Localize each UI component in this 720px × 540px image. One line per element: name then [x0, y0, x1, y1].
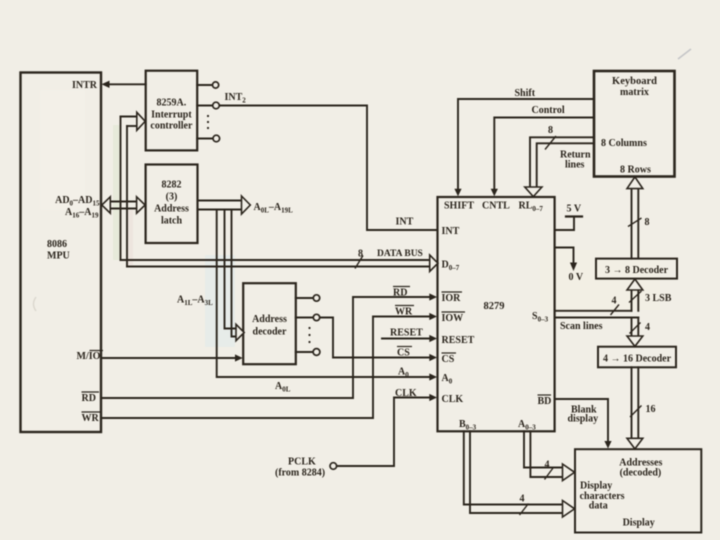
hollow head into 8259A: [137, 112, 145, 130]
svg-text:0 V: 0 V: [569, 272, 584, 283]
3-to-8 decoder box: [596, 259, 677, 279]
svg-text:controller: controller: [150, 121, 193, 132]
svg-text:4: 4: [520, 494, 525, 505]
8259A output stubs: [197, 84, 212, 86]
svg-text:4: 4: [612, 296, 617, 307]
wire VSS to 0V: [555, 248, 574, 264]
arrowhead VSS 0V down: [570, 263, 577, 272]
8282 address latch box: [146, 165, 198, 244]
faint smudge left middle: [34, 297, 37, 311]
wire RD to IOR: [101, 297, 431, 398]
arrowhead CS: [429, 354, 437, 361]
bus MPU-8282 double arrow shaft: [110, 201, 138, 203]
hollow head AD bus left into MPU: [102, 197, 111, 213]
svg-text:INT: INT: [442, 226, 460, 237]
svg-text:8: 8: [358, 249, 363, 260]
open circle terminals: [213, 82, 337, 469]
wire WR to IOW: [101, 317, 431, 419]
8259A interrupt controller box: [146, 71, 198, 151]
svg-text:(from 8284): (from 8284): [275, 468, 325, 479]
svg-text:Interrupt: Interrupt: [151, 110, 192, 121]
bus A1L-A3L to address decoder: [225, 210, 237, 329]
hollow head B0-3 bus into display: [563, 501, 575, 518]
wire BD blank display: [555, 399, 608, 442]
arrowhead M/IO: [235, 354, 243, 361]
keyboard matrix box: [594, 71, 675, 177]
arrowhead A0: [429, 373, 437, 380]
bus B0-3 to display: [464, 431, 563, 504]
svg-text:RD: RD: [82, 393, 96, 404]
slash 8 return lines: [545, 136, 556, 150]
bus 8 pair 3-8 decoder to keyboard: [631, 189, 633, 259]
bus 4 down pair to 4-16 decoder: [631, 318, 633, 337]
bus 16 pair 4-16 decoder to display: [631, 367, 633, 438]
hollow head up into keyboard: [627, 177, 643, 189]
hollow head A0-3 bus into display: [563, 464, 575, 481]
svg-text:DATA BUS: DATA BUS: [377, 249, 423, 259]
wire AD bus vertical channel right line: [126, 126, 128, 267]
decoder output stubs: [296, 297, 314, 299]
svg-text:8 Rows: 8 Rows: [620, 165, 651, 176]
svg-text:latch: latch: [161, 216, 183, 227]
5V T-bar: [566, 215, 582, 217]
hollow head up into 3-8 decoder: [627, 279, 643, 290]
arrowhead SHIFT down: [454, 189, 461, 197]
slash 8 data bus: [355, 256, 363, 269]
svg-text:INT: INT: [396, 217, 414, 228]
svg-text:Shift: Shift: [515, 88, 536, 99]
bus A0L-A19L shaft from 8282: [198, 200, 243, 202]
svg-text:INTR: INTR: [72, 80, 98, 91]
svg-text:CS: CS: [442, 354, 455, 365]
slash marks on buses: [355, 136, 642, 515]
svg-text:8259A.: 8259A.: [157, 98, 187, 109]
solid arrowheads group: [102, 81, 612, 449]
svg-text:8086: 8086: [47, 239, 67, 250]
8259A terminal circle 2 INT2: [213, 102, 220, 109]
wire M/IO to decoder: [101, 357, 236, 359]
svg-text:PCLK: PCLK: [288, 457, 316, 468]
address decoder box: [243, 283, 296, 364]
svg-text:CS: CS: [397, 348, 410, 359]
decoder terminal circle 2: [313, 314, 319, 320]
svg-text:data: data: [589, 501, 608, 512]
svg-text:lines: lines: [565, 160, 585, 171]
svg-text:BD: BD: [538, 396, 552, 407]
svg-text:5 V: 5 V: [567, 204, 582, 215]
PCLK terminal circle: [330, 463, 337, 470]
bus shaft into 8259A: [121, 116, 138, 118]
arrowhead CNTL down: [491, 189, 498, 197]
decoder terminal circle 1: [313, 295, 319, 301]
svg-text:WR: WR: [395, 307, 413, 318]
svg-text:MPU: MPU: [47, 251, 70, 262]
arrowhead RESET: [429, 335, 437, 342]
hollow head AD bus right into 8282: [137, 197, 146, 213]
svg-text:CLK: CLK: [395, 388, 417, 399]
svg-text:3 → 8 Decoder: 3 → 8 Decoder: [605, 265, 669, 276]
hollow head return lines into RL0-7: [525, 187, 542, 197]
svg-text:SHIFT: SHIFT: [444, 201, 474, 212]
wire CLK from PCLK: [337, 398, 431, 467]
decoder terminal circle 3: [313, 349, 320, 356]
svg-text:Address: Address: [252, 314, 287, 325]
display box: [575, 449, 701, 532]
wire Shift: [458, 99, 594, 190]
svg-text:RESET: RESET: [390, 328, 423, 339]
svg-text:RESET: RESET: [442, 335, 475, 346]
svg-text:Scan lines: Scan lines: [560, 321, 603, 332]
svg-text:matrix: matrix: [620, 87, 649, 98]
svg-text:Keyboard: Keyboard: [612, 76, 657, 87]
ellipsis dots 8259A outputs: [207, 115, 209, 129]
hollow head A0L-A19L: [242, 196, 251, 214]
8259A terminal circle 3: [213, 135, 220, 142]
svg-text:3 LSB: 3 LSB: [645, 293, 672, 304]
svg-text:4: 4: [545, 460, 550, 471]
bus A0-3 to display: [524, 431, 563, 467]
8259A terminal circle 1: [213, 82, 219, 88]
svg-text:IOR: IOR: [442, 293, 462, 304]
svg-text:CNTL: CNTL: [482, 201, 510, 212]
bus return lines: [530, 137, 594, 187]
slash 16: [630, 406, 642, 418]
svg-text:decoder: decoder: [253, 327, 287, 338]
svg-text:4: 4: [645, 322, 650, 333]
8086 MPU U1 box: [21, 73, 102, 433]
svg-text:8: 8: [548, 125, 553, 136]
hollow head down into 4-16 decoder: [627, 336, 643, 346]
DATA BUS pair to 8279: [121, 259, 431, 261]
arrowhead INTR: [102, 81, 110, 88]
slash 4 B0-3 bus: [520, 504, 529, 516]
wire INTR from 8259A to MPU: [108, 83, 146, 85]
hollow arrowheads group: [102, 112, 643, 517]
wire AD bus vertical channel left line: [120, 117, 122, 261]
wire RESET stub: [382, 338, 431, 340]
wire INT2 from 8259A to 8279 INT: [219, 106, 437, 231]
svg-text:Control: Control: [532, 105, 565, 116]
arrowhead IOR: [429, 293, 437, 300]
svg-text:RD: RD: [393, 288, 407, 299]
wire A0L vertical and horizontal to A0 pin: [217, 210, 431, 378]
bus 3LSB vertical pair: [631, 290, 633, 311]
hollow head down into display box: [627, 438, 643, 449]
arrowhead CLK: [429, 394, 437, 401]
svg-text:CLK: CLK: [442, 394, 464, 405]
svg-text:Display: Display: [580, 481, 612, 492]
hollow head A1L-A3L into decoder: [236, 324, 244, 340]
arrowhead blank display down: [604, 441, 611, 449]
scan lines pair: [555, 310, 632, 312]
slash 4 scan lines: [611, 305, 620, 316]
svg-text:M/IO: M/IO: [77, 351, 101, 362]
arrowhead IOW: [429, 313, 437, 320]
svg-text:8 Columns: 8 Columns: [601, 138, 647, 149]
svg-text:4 → 16 Decoder: 4 → 16 Decoder: [603, 354, 672, 365]
slash 8 keyboard rows bus: [628, 218, 642, 227]
ellipsis dots decoder outputs: [308, 327, 310, 343]
wire CS from decoder output: [320, 318, 431, 358]
svg-text:(decoded): (decoded): [620, 468, 662, 479]
svg-text:WR: WR: [82, 413, 100, 424]
svg-text:8282: 8282: [162, 180, 182, 191]
slash 3 LSB: [629, 291, 642, 303]
slash 4 into 4-16 decoder: [630, 323, 641, 334]
4-to-16 decoder box: [598, 347, 676, 368]
svg-text:Display: Display: [623, 518, 655, 529]
wire Control: [494, 118, 594, 190]
svg-text:IOW: IOW: [442, 313, 464, 324]
svg-text:Address: Address: [154, 204, 189, 215]
stray pen mark top right: [678, 49, 691, 59]
wire VDD 5V: [555, 217, 574, 231]
svg-text:16: 16: [646, 404, 656, 415]
slash 4 A0-3 bus: [545, 468, 554, 480]
svg-text:8279: 8279: [484, 301, 505, 312]
hollow head DATA BUS into D0-7: [430, 255, 438, 271]
svg-text:(3): (3): [166, 192, 178, 203]
svg-text:display: display: [568, 414, 599, 425]
svg-text:8: 8: [645, 217, 650, 228]
8279 keyboard/display controller box: [438, 197, 555, 431]
